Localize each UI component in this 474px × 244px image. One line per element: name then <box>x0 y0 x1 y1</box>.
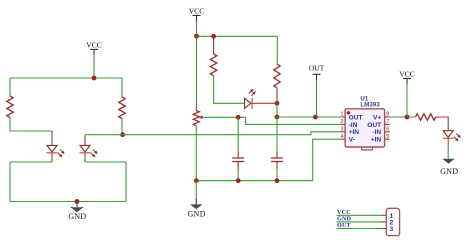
resistor R1 <box>7 96 13 118</box>
svg-text:4: 4 <box>340 134 343 140</box>
wire connector pin2 <box>337 221 382 223</box>
wire VCC2 stem <box>196 21 198 36</box>
junction OUT net <box>275 115 280 120</box>
pin 7 stub <box>385 119 390 125</box>
resistor R3 <box>210 54 216 76</box>
wire VCC2 rail <box>197 35 278 37</box>
LED D4 <box>443 131 462 143</box>
wire top rail left block <box>10 77 122 79</box>
wire connector pin3 <box>337 228 382 230</box>
svg-text:+IN: +IN <box>349 129 360 136</box>
wire C2 top lead <box>276 117 278 158</box>
svg-text:VCC: VCC <box>86 41 102 50</box>
wire wiper jog to -IN pin2 <box>246 117 341 124</box>
resistor R5 <box>416 114 436 120</box>
power flag OUT <box>309 64 325 117</box>
power flag VCC (middle) <box>189 7 205 21</box>
wire LED2 cathode lead <box>84 153 86 162</box>
junction wiper / C1 <box>236 115 241 120</box>
svg-text:GND: GND <box>188 210 206 219</box>
connector J1 pin stubs <box>382 215 387 228</box>
wire C1 top lead <box>237 117 239 158</box>
junction LED3 cathode / R4 <box>275 101 280 106</box>
svg-text:VCC: VCC <box>399 70 415 79</box>
wire LED1 anode lead <box>51 131 53 145</box>
svg-text:-IN: -IN <box>349 122 358 129</box>
wire R3 top lead <box>213 36 215 54</box>
pin 3 stub <box>340 126 345 132</box>
wire RV1 wiper to C1 <box>203 116 245 118</box>
wire RV1 bottom to GND rail <box>195 126 197 181</box>
resistor R2 <box>119 97 125 119</box>
op-amp U1 LM393 <box>345 95 385 150</box>
junction GND rail / C2 <box>275 178 280 183</box>
wire pin8 to R5 <box>390 116 416 118</box>
junction VCC3 <box>405 115 410 120</box>
wire connector pin1 <box>337 214 382 216</box>
connector J1 <box>386 208 399 235</box>
svg-text:OUT: OUT <box>367 122 381 129</box>
wire +IN net (R2 junction to pin3) <box>123 132 341 135</box>
svg-text:GND: GND <box>440 167 458 176</box>
ground GND4 (right) <box>440 138 458 176</box>
wire OUT net vertical <box>276 103 278 117</box>
svg-text:3: 3 <box>340 126 343 132</box>
resistor R4 <box>274 64 280 88</box>
svg-text:-IN: -IN <box>372 129 381 136</box>
net label VCC (connector) <box>337 210 351 216</box>
svg-text:OUT: OUT <box>309 64 325 73</box>
wire C1 bottom lead <box>237 162 239 181</box>
ground GND2 (middle) <box>188 181 206 219</box>
wire LED3 cathode to junction <box>252 102 277 104</box>
capacitor C2 <box>271 158 283 162</box>
svg-text:V-: V- <box>349 137 355 144</box>
wire OUT net to pin1 <box>277 116 340 118</box>
pin 2 stub <box>340 119 345 125</box>
power flag VCC (right) <box>399 70 415 117</box>
pin 4 stub <box>340 134 345 140</box>
wire R2 bottom to junction <box>121 119 123 135</box>
svg-text:2: 2 <box>340 119 343 125</box>
LED D2 <box>80 145 99 158</box>
pin 6 stub <box>385 126 390 132</box>
junction VCC rail <box>92 76 97 81</box>
wire LED1 cathode lead <box>51 153 53 162</box>
junction GND rail / RV1 <box>194 178 199 183</box>
wire LED2 top <box>85 135 123 146</box>
junction R2 / LED2 / +IN net <box>120 132 125 137</box>
net label OUT (connector) <box>337 223 351 229</box>
LED D3 <box>245 88 257 109</box>
pin 5 stub <box>385 134 390 140</box>
capacitor C1 <box>232 158 244 162</box>
svg-text:V+: V+ <box>373 114 381 121</box>
wire R1 top lead <box>9 78 11 96</box>
wire R1 bottom to LED1 top <box>10 118 52 132</box>
svg-text:OUT: OUT <box>349 114 363 121</box>
net label GND (connector) <box>337 216 352 222</box>
wire R5 to LED4 <box>436 117 448 131</box>
svg-text:5: 5 <box>386 134 389 140</box>
potentiometer RV1 <box>193 111 203 126</box>
junction GND left <box>75 199 80 204</box>
svg-text:+IN: +IN <box>371 137 382 144</box>
ground GND1 <box>68 202 86 221</box>
pin 8 stub <box>385 112 390 118</box>
svg-text:1: 1 <box>340 112 343 118</box>
wire LED1 bottom loop to GND rail <box>10 162 126 202</box>
svg-text:GND: GND <box>68 212 86 221</box>
pin 1 stub <box>340 112 345 118</box>
svg-text:3: 3 <box>390 226 394 233</box>
wire C2 bottom lead <box>276 162 278 181</box>
wire GND rail middle <box>196 139 340 181</box>
wire R2 top lead <box>121 78 123 97</box>
wire R4 top lead <box>276 36 278 64</box>
wire R4 bottom to LED3 junction <box>276 88 278 103</box>
svg-text:LM393: LM393 <box>360 102 380 109</box>
junction GND rail / C1 <box>236 178 241 183</box>
wire VCC stem to rail <box>93 55 95 78</box>
junction VCC2 stem <box>194 34 199 39</box>
svg-text:VCC: VCC <box>189 7 205 16</box>
svg-text:8: 8 <box>386 112 389 118</box>
svg-text:7: 7 <box>386 119 389 125</box>
junction R3 top <box>211 34 216 39</box>
potentiometer RV1 top lead <box>195 36 197 110</box>
LED D1 <box>47 145 66 158</box>
junction OUT flag <box>313 115 318 120</box>
svg-text:6: 6 <box>386 126 389 132</box>
power flag VCC (left) <box>86 41 102 55</box>
wire LED2 anode lead <box>84 136 86 145</box>
wire R3 bottom to LED3 anode <box>214 76 245 104</box>
